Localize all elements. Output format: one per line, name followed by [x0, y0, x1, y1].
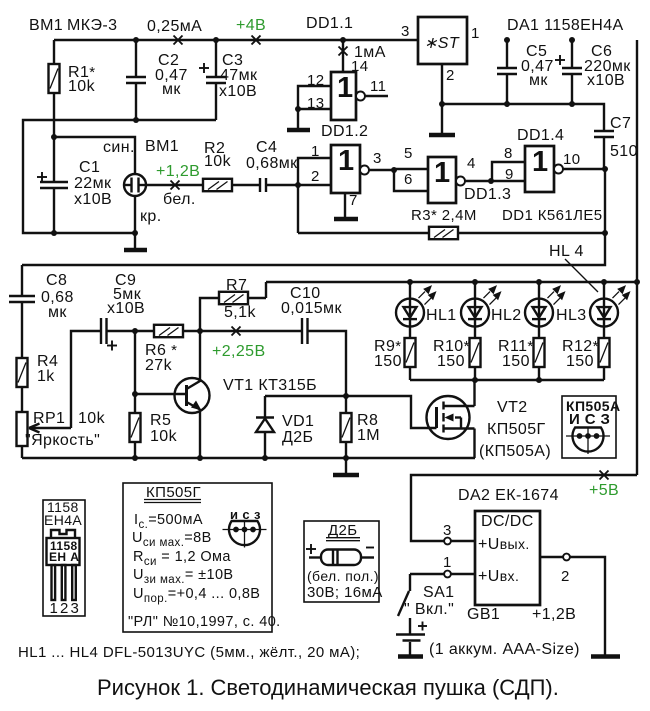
- svg-text:" Вкл.": " Вкл.": [404, 601, 454, 618]
- svg-text:SA1: SA1: [423, 584, 454, 601]
- wire mid ground rail: [22, 457, 475, 459]
- svg-text:бел.: бел.: [163, 191, 196, 208]
- wire pin1 to box: [451, 573, 475, 575]
- wire pin 3: [369, 169, 394, 171]
- wire VT2 source: [473, 429, 475, 459]
- measure mark 0,25mA: [174, 36, 183, 45]
- box 1158EH4A pinout: [43, 500, 85, 616]
- ground DD1.2: [334, 217, 358, 222]
- wire collector to R7: [200, 298, 219, 331]
- svg-text:DD1.1: DD1.1: [306, 15, 353, 32]
- svg-text:HL1: HL1: [426, 307, 457, 324]
- resistor R1: [49, 40, 60, 140]
- svg-text:C7: C7: [610, 115, 631, 132]
- capacitor C7: [594, 131, 614, 169]
- svg-text:150: 150: [437, 353, 465, 370]
- junction C5 top: [504, 37, 510, 43]
- svg-text:R7: R7: [226, 277, 247, 294]
- junction drain bus: [472, 377, 478, 383]
- svg-text:КП505Г: КП505Г: [146, 484, 201, 501]
- svg-text:C8: C8: [46, 272, 67, 289]
- junction gate node: [343, 393, 349, 399]
- wire base: [135, 393, 185, 395]
- junction base: [132, 391, 138, 397]
- junction R11 bus: [536, 377, 542, 383]
- junction HL2 bus: [472, 279, 478, 285]
- svg-text:Рисунок 1. Светодинамическая: Рисунок 1. Светодинамическая пушка (СДП)…: [97, 675, 559, 700]
- svg-text:1: 1: [311, 143, 320, 160]
- svg-text:DD1.4: DD1.4: [517, 127, 564, 144]
- converter DA2 box: [475, 511, 540, 605]
- svg-text:22мк: 22мк: [74, 175, 112, 192]
- svg-text:мк: мк: [162, 81, 181, 98]
- junction R5 rail: [132, 455, 138, 461]
- junction C6 bottom: [569, 101, 575, 107]
- measure mark +5V: [600, 471, 609, 480]
- resistor R11: [534, 338, 545, 380]
- svg-text:10: 10: [563, 151, 581, 168]
- svg-text:ЕН4А: ЕН4А: [44, 512, 82, 528]
- svg-text:R3* 2,4М: R3* 2,4М: [411, 207, 477, 224]
- wire gnd DD1.1: [297, 109, 299, 129]
- svg-text:C4: C4: [256, 139, 277, 156]
- svg-text:+5В: +5В: [589, 482, 619, 499]
- junction C2 bottom: [133, 117, 139, 123]
- svg-text:5: 5: [404, 145, 413, 162]
- svg-text:14: 14: [351, 58, 369, 75]
- wire LED return bus: [410, 379, 604, 381]
- svg-text:2: 2: [60, 600, 69, 617]
- wire pin 4: [465, 180, 525, 182]
- svg-text:"РЛ" №10,1997, с. 40.: "РЛ" №10,1997, с. 40.: [128, 614, 281, 630]
- svg-text:C1: C1: [79, 159, 100, 176]
- wire C4 to DD1.2 input: [266, 184, 331, 186]
- wire pins 12 13: [298, 86, 331, 109]
- wire ground return C2 C3: [23, 120, 216, 233]
- junction pin10 C7: [602, 166, 608, 172]
- junction pin4 node: [488, 178, 494, 184]
- svg-text:11: 11: [370, 78, 386, 95]
- svg-text:х10В: х10В: [107, 300, 145, 317]
- svg-text:DC/DC: DC/DC: [481, 513, 534, 530]
- svg-text:GB1: GB1: [467, 606, 500, 623]
- ground mid rail: [333, 473, 359, 478]
- svg-text:МКЭ-3: МКЭ-3: [67, 17, 117, 34]
- capacitor C4: [260, 178, 266, 192]
- svg-text:+Uвых.: +Uвых.: [478, 536, 530, 553]
- svg-text:10k: 10k: [150, 428, 178, 445]
- svg-text:ВМ1: ВМ1: [145, 138, 179, 155]
- transistor VT1: [175, 378, 210, 413]
- wire DD1.2 pin7 gnd: [344, 193, 346, 218]
- svg-text:5,1k: 5,1k: [224, 304, 256, 321]
- junction C2 top: [133, 37, 139, 43]
- svg-text:2: 2: [561, 568, 570, 585]
- diode drawing D2B: [306, 544, 374, 565]
- svg-text:х10В: х10В: [219, 83, 257, 100]
- svg-text:150: 150: [374, 353, 402, 370]
- capacitor C10: [302, 318, 308, 344]
- junction DA1 pin2 bus: [439, 101, 445, 107]
- svg-text:3: 3: [71, 600, 80, 617]
- svg-text:1: 1: [532, 146, 549, 178]
- led HL4: [590, 282, 631, 338]
- resistor R7: [219, 292, 266, 304]
- junction DD1.2 input: [295, 182, 301, 188]
- wire signal to C10: [200, 330, 302, 332]
- wire gate node line: [265, 396, 437, 428]
- svg-text:4: 4: [467, 155, 476, 172]
- svg-text:VT2: VT2: [497, 399, 528, 416]
- svg-text:мк: мк: [529, 72, 548, 89]
- wire pin 11 stub: [365, 95, 388, 97]
- svg-text:12: 12: [307, 72, 325, 89]
- junction mic bottom: [132, 230, 138, 236]
- svg-text:510: 510: [610, 143, 638, 160]
- junction VD1 rail: [262, 455, 268, 461]
- wire pin 10: [563, 168, 605, 170]
- svg-text:"Яркость": "Яркость": [25, 432, 100, 449]
- svg-text:(КП505А): (КП505А): [479, 443, 551, 460]
- junction C9 R5 R6: [132, 328, 138, 334]
- wire C10 to gate node: [308, 331, 347, 396]
- junction R8 rail: [343, 455, 349, 461]
- junction C5 bottom: [504, 101, 510, 107]
- junction pin3 node: [391, 167, 397, 173]
- wire +5V right rail: [636, 40, 638, 475]
- svg-text:VT1 КТ315Б: VT1 КТ315Б: [223, 377, 317, 394]
- svg-text:2: 2: [311, 168, 320, 185]
- svg-text:3: 3: [443, 522, 452, 539]
- wire ground bus to C7: [442, 104, 604, 131]
- wire emitter: [199, 409, 201, 458]
- svg-text:+4В: +4В: [236, 17, 266, 34]
- gate DD1.2: [331, 145, 369, 193]
- svg-text:47мк: 47мк: [220, 67, 258, 84]
- junction pin14: [340, 37, 346, 43]
- wire pin2: [540, 556, 563, 558]
- ground DD1.1: [287, 128, 310, 133]
- svg-text:Д2Б: Д2Б: [282, 429, 313, 446]
- terminal pin1: [444, 571, 451, 578]
- svg-text:1k: 1k: [37, 368, 55, 385]
- svg-text:Д2Б: Д2Б: [328, 522, 358, 539]
- svg-text:+Uвх.: +Uвх.: [478, 568, 519, 585]
- box KP505G spec: [123, 483, 272, 632]
- box KP505A pinout: [562, 396, 616, 458]
- measure mark +4V: [252, 36, 261, 45]
- wire input node to R3: [297, 185, 299, 233]
- capacitor C5: [497, 40, 517, 104]
- terminal pin3: [444, 538, 451, 545]
- svg-text:DD1 К561ЛЕ5: DD1 К561ЛЕ5: [502, 207, 603, 224]
- svg-text:3: 3: [373, 150, 382, 167]
- capacitor C6: [555, 40, 582, 104]
- svg-text:6: 6: [404, 171, 413, 188]
- junction HL1 bus: [407, 279, 413, 285]
- battery GB1: [396, 618, 427, 655]
- svg-text:DA2 ЕК-1674: DA2 ЕК-1674: [458, 487, 559, 504]
- svg-text:1: 1: [443, 554, 452, 571]
- svg-text:1: 1: [50, 600, 59, 617]
- svg-text:и с з: и с з: [230, 507, 261, 522]
- package ISZ VT2: [566, 427, 610, 455]
- svg-text:150: 150: [566, 353, 594, 370]
- resistor R5: [130, 331, 141, 458]
- wire R3 left: [298, 232, 429, 234]
- gate DD1.3: [428, 157, 465, 203]
- svg-text:VD1: VD1: [282, 413, 314, 430]
- junction mic top: [51, 134, 57, 140]
- wire mic top: [54, 137, 135, 174]
- resistor R2: [203, 179, 232, 191]
- svg-text:1М: 1М: [357, 427, 380, 444]
- junction collector node: [197, 328, 203, 334]
- svg-text:HL1 ... HL4 DFL-5013UYC (5м: HL1 ... HL4 DFL-5013UYC (5мм., жёлт., 20…: [18, 644, 360, 661]
- ground GB1: [398, 654, 423, 659]
- svg-text:+1,2В: +1,2В: [532, 606, 576, 623]
- package ISZ in spec box: [223, 520, 267, 548]
- measure mark +2,25V: [232, 327, 241, 336]
- svg-text:х10В: х10В: [74, 191, 112, 208]
- wire R2 to C4: [232, 184, 260, 186]
- svg-text:HL 4: HL 4: [549, 243, 584, 260]
- pointer HL4: [565, 259, 598, 292]
- switch SA1: [398, 574, 444, 616]
- box D2B: [304, 521, 379, 602]
- wire LED bus: [266, 281, 637, 283]
- wire pin3 to box: [451, 540, 475, 542]
- resistor R6: [135, 325, 200, 337]
- junction rail bus: [634, 279, 640, 285]
- svg-text:КП505Г: КП505Г: [487, 421, 546, 438]
- svg-text:И С З: И С З: [569, 411, 610, 428]
- led HL2: [461, 282, 502, 338]
- ground DA1: [429, 133, 455, 138]
- wire collector: [199, 331, 201, 382]
- wire R8 ground stem: [345, 458, 347, 474]
- resistor R8: [341, 396, 352, 458]
- wire VT2 drain: [473, 380, 475, 406]
- svg-text:х10В: х10В: [587, 72, 625, 89]
- wire mic bottom to ground: [134, 196, 136, 249]
- svg-text:1: 1: [471, 25, 480, 42]
- svg-text:0,015мк: 0,015мк: [281, 300, 342, 317]
- wire DA1 pin2: [441, 64, 443, 134]
- wire pin 14: [342, 40, 344, 72]
- svg-text:(1 аккум. AAA-Size): (1 аккум. AAA-Size): [429, 641, 580, 658]
- svg-text:7: 7: [349, 192, 358, 209]
- led HL3: [525, 282, 566, 338]
- led HL1: [396, 282, 437, 338]
- resistor R4: [17, 358, 28, 412]
- svg-text:DA1 1158ЕН4А: DA1 1158ЕН4А: [507, 17, 624, 34]
- wire output column to rail: [22, 169, 605, 265]
- svg-text:13: 13: [307, 95, 325, 112]
- capacitor C2: [126, 40, 146, 120]
- svg-text:10k: 10k: [78, 410, 106, 427]
- svg-text:27k: 27k: [145, 357, 173, 374]
- capacitor C3: [199, 40, 226, 120]
- wire node to C1: [53, 138, 55, 182]
- svg-text:+2,25В: +2,25В: [212, 343, 266, 360]
- svg-text:син.: син.: [103, 139, 135, 156]
- wire DD1.2 pin1 tie: [298, 158, 331, 185]
- svg-text:RP1: RP1: [33, 410, 65, 427]
- svg-text:ЕН А: ЕН А: [49, 550, 79, 564]
- svg-text:мк: мк: [48, 304, 67, 321]
- svg-text:9: 9: [505, 166, 514, 183]
- transistor VT2: [427, 396, 475, 439]
- svg-text:+1,2В: +1,2В: [156, 163, 200, 180]
- svg-text:ВМ1: ВМ1: [29, 17, 63, 34]
- junction HL3 bus: [536, 279, 542, 285]
- svg-text:1: 1: [337, 72, 354, 104]
- svg-text:10k: 10k: [204, 153, 232, 170]
- diode VD1: [256, 396, 274, 458]
- svg-text:10k: 10k: [68, 78, 96, 95]
- junction DD1.1 gnd: [295, 106, 301, 112]
- resistor R9: [405, 338, 416, 380]
- potentiometer RP1: [17, 412, 72, 458]
- junction R3 output: [602, 230, 608, 236]
- svg-text:2: 2: [446, 67, 455, 84]
- svg-text:R5: R5: [150, 412, 171, 429]
- svg-text:0,68мк: 0,68мк: [246, 155, 298, 172]
- wire mic output: [146, 184, 203, 186]
- capacitor C1: [37, 172, 68, 188]
- wire R7 to LED bus: [265, 282, 267, 298]
- capacitor C8: [9, 265, 35, 358]
- ground mic: [124, 248, 147, 253]
- svg-text:DD1.3: DD1.3: [464, 186, 511, 203]
- measure mark 1mA: [339, 47, 348, 56]
- svg-text:1: 1: [434, 157, 451, 189]
- junction HL4 bus: [601, 279, 607, 285]
- svg-text:3: 3: [401, 23, 410, 40]
- junction emitter rail: [197, 455, 203, 461]
- wire C9 to wiper: [71, 331, 101, 428]
- measure mark +1,2V: [171, 181, 180, 190]
- svg-text:0,25мА: 0,25мА: [147, 18, 202, 35]
- wire DD1.4 pin8 tie: [492, 162, 525, 181]
- wire R3 right: [458, 232, 605, 234]
- svg-text:30В; 16мА: 30В; 16мА: [307, 584, 383, 601]
- terminal pin2: [563, 554, 570, 561]
- svg-text:8: 8: [504, 145, 513, 162]
- regulator DA1: [418, 17, 467, 64]
- svg-text:∗ST: ∗ST: [424, 35, 460, 52]
- ground right: [591, 654, 620, 659]
- wire +5V feed: [411, 475, 637, 541]
- wire C1 to ground wire: [53, 188, 55, 233]
- junction C6 top: [569, 37, 575, 43]
- junction C3 top: [213, 37, 219, 43]
- junction C1 bottom: [51, 230, 57, 236]
- wire DD1.3 inputs tie: [394, 169, 428, 191]
- svg-text:кр.: кр.: [140, 208, 162, 225]
- svg-text:1: 1: [338, 145, 355, 177]
- svg-text:HL3: HL3: [556, 307, 587, 324]
- svg-text:150: 150: [502, 353, 530, 370]
- gate DD1.4: [525, 146, 563, 192]
- svg-text:HL2: HL2: [491, 307, 522, 324]
- microphone BM1: [124, 174, 146, 196]
- resistor R3: [429, 227, 458, 239]
- svg-text:DD1.2: DD1.2: [321, 123, 368, 140]
- wire pin2 to ground: [570, 557, 605, 655]
- resistor R10: [470, 338, 481, 380]
- gate DD1.1: [331, 72, 365, 120]
- svg-text:(бел. пол.): (бел. пол.): [307, 568, 379, 584]
- capacitor C9: [101, 318, 135, 351]
- wire +4V rail: [54, 39, 418, 41]
- resistor R12: [599, 338, 610, 380]
